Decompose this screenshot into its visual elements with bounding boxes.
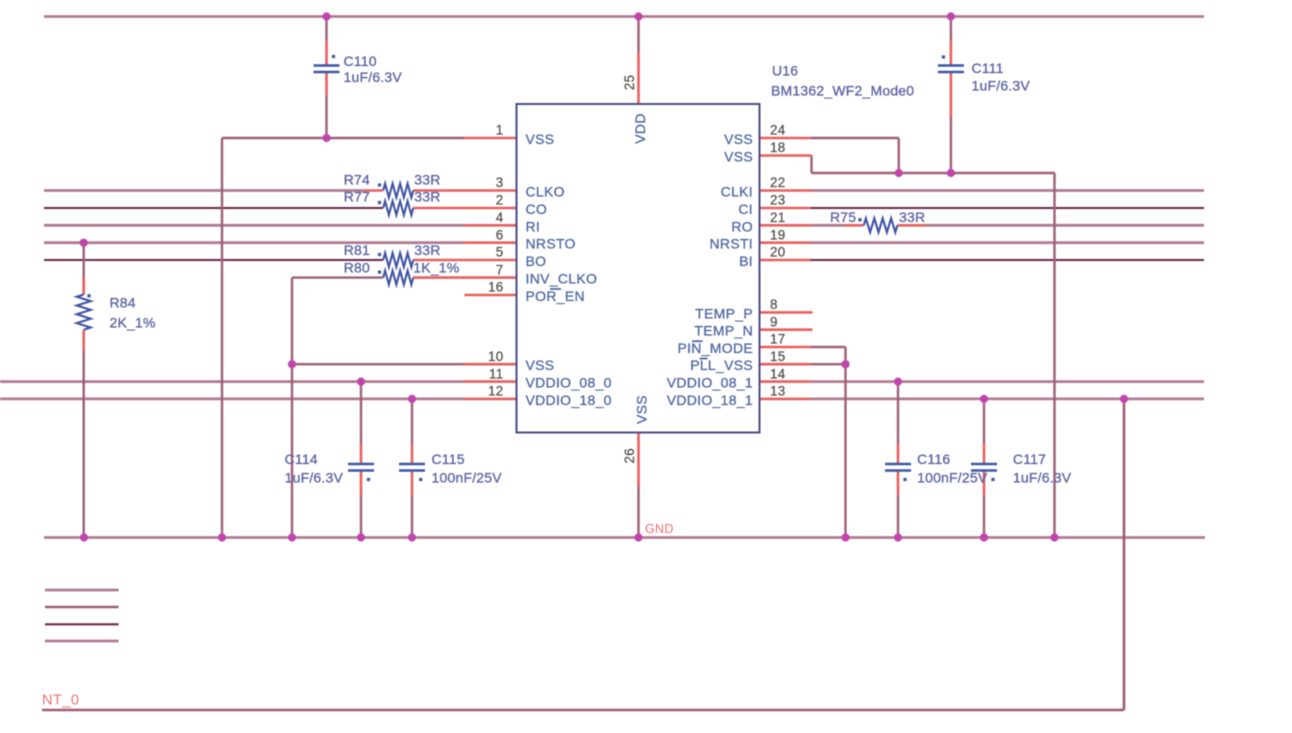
svg-text:C117: C117 bbox=[1013, 451, 1046, 467]
svg-text:R74: R74 bbox=[344, 172, 370, 188]
svg-text:BI: BI bbox=[739, 253, 753, 269]
svg-text:PIN_MODE: PIN_MODE bbox=[677, 340, 753, 356]
svg-text:1uF/6.3V: 1uF/6.3V bbox=[972, 78, 1031, 94]
svg-text:5: 5 bbox=[496, 245, 504, 260]
svg-text:21: 21 bbox=[770, 210, 786, 225]
svg-text:VSS: VSS bbox=[526, 131, 555, 147]
svg-text:VSS: VSS bbox=[526, 357, 555, 373]
svg-text:15: 15 bbox=[770, 349, 786, 364]
svg-text:C116: C116 bbox=[917, 451, 950, 467]
svg-text:NT_0: NT_0 bbox=[42, 693, 79, 709]
svg-text:22: 22 bbox=[770, 175, 786, 190]
svg-text:8: 8 bbox=[770, 297, 778, 312]
svg-text:CLKO: CLKO bbox=[526, 184, 565, 200]
svg-text:13: 13 bbox=[770, 384, 786, 399]
svg-text:R84: R84 bbox=[110, 295, 136, 311]
svg-text:25: 25 bbox=[622, 75, 637, 91]
svg-text:VDDIO_18_1: VDDIO_18_1 bbox=[667, 392, 753, 408]
svg-text:CLKI: CLKI bbox=[721, 184, 753, 200]
svg-text:2K_1%: 2K_1% bbox=[110, 315, 156, 331]
svg-text:RO: RO bbox=[731, 218, 753, 234]
svg-text:VDD: VDD bbox=[632, 113, 648, 143]
svg-text:6: 6 bbox=[496, 227, 504, 242]
svg-text:PLL_VSS: PLL_VSS bbox=[690, 357, 753, 373]
svg-text:19: 19 bbox=[770, 227, 786, 242]
svg-text:100nF/25V: 100nF/25V bbox=[432, 470, 503, 486]
svg-text:16: 16 bbox=[488, 280, 504, 295]
svg-text:7: 7 bbox=[496, 262, 504, 277]
svg-text:VDDIO_08_0: VDDIO_08_0 bbox=[526, 375, 612, 391]
svg-text:R81: R81 bbox=[344, 242, 370, 258]
svg-text:VSS: VSS bbox=[724, 131, 753, 147]
svg-text:18: 18 bbox=[770, 140, 786, 155]
svg-text:14: 14 bbox=[770, 366, 786, 381]
svg-text:C114: C114 bbox=[285, 451, 318, 467]
svg-text:INV_CLKO: INV_CLKO bbox=[526, 271, 598, 287]
svg-text:2: 2 bbox=[496, 193, 504, 208]
svg-text:R80: R80 bbox=[344, 260, 370, 276]
svg-text:TEMP_P: TEMP_P bbox=[695, 305, 753, 321]
svg-text:NRSTO: NRSTO bbox=[526, 236, 576, 252]
svg-text:20: 20 bbox=[770, 245, 786, 260]
svg-text:R75: R75 bbox=[830, 209, 856, 225]
svg-text:11: 11 bbox=[489, 366, 504, 381]
svg-text:100nF/25V: 100nF/25V bbox=[917, 470, 988, 486]
svg-text:TEMP_N: TEMP_N bbox=[694, 323, 753, 339]
svg-text:33R: 33R bbox=[414, 189, 440, 205]
svg-text:1uF/6.3V: 1uF/6.3V bbox=[1013, 470, 1072, 486]
svg-text:1uF/6.3V: 1uF/6.3V bbox=[344, 69, 403, 85]
svg-text:17: 17 bbox=[770, 332, 786, 347]
svg-text:33R: 33R bbox=[414, 242, 440, 258]
svg-text:C111: C111 bbox=[972, 60, 1004, 76]
svg-text:33R: 33R bbox=[414, 172, 440, 188]
svg-text:VDDIO_18_0: VDDIO_18_0 bbox=[526, 392, 612, 408]
svg-text:CO: CO bbox=[526, 201, 548, 217]
svg-text:4: 4 bbox=[496, 210, 504, 225]
svg-text:1: 1 bbox=[496, 123, 504, 138]
svg-text:C115: C115 bbox=[432, 451, 465, 467]
svg-text:R77: R77 bbox=[344, 189, 370, 205]
svg-text:1uF/6.3V: 1uF/6.3V bbox=[285, 470, 344, 486]
svg-text:12: 12 bbox=[488, 384, 504, 399]
svg-text:26: 26 bbox=[622, 448, 637, 464]
svg-text:BM1362_WF2_Mode0: BM1362_WF2_Mode0 bbox=[771, 83, 914, 99]
svg-text:10: 10 bbox=[488, 349, 504, 364]
svg-text:NRSTI: NRSTI bbox=[710, 236, 754, 252]
svg-text:VDDIO_08_1: VDDIO_08_1 bbox=[667, 375, 753, 391]
svg-text:33R: 33R bbox=[899, 209, 925, 225]
svg-text:23: 23 bbox=[770, 193, 786, 208]
svg-text:C110: C110 bbox=[344, 53, 377, 69]
svg-text:1K_1%: 1K_1% bbox=[413, 260, 459, 276]
svg-text:POR_EN: POR_EN bbox=[526, 288, 585, 304]
svg-text:VSS: VSS bbox=[724, 149, 753, 165]
svg-text:24: 24 bbox=[770, 123, 786, 138]
svg-text:BO: BO bbox=[526, 253, 547, 269]
svg-text:VSS: VSS bbox=[634, 395, 650, 424]
svg-text:GND: GND bbox=[645, 522, 674, 536]
svg-text:9: 9 bbox=[770, 314, 778, 329]
svg-text:U16: U16 bbox=[772, 63, 798, 79]
svg-text:RI: RI bbox=[526, 218, 541, 234]
svg-text:CI: CI bbox=[738, 201, 753, 217]
svg-text:3: 3 bbox=[496, 175, 504, 190]
